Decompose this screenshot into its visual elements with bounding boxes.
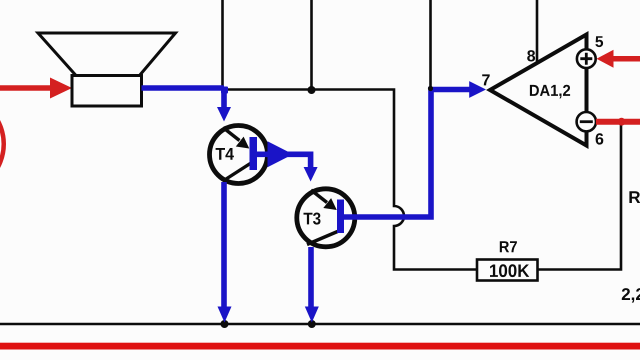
ground junction dot right xyxy=(308,320,316,328)
wire top stub to node B xyxy=(310,0,313,90)
red input arrow into speaker xyxy=(0,78,72,99)
T3 label xyxy=(304,213,321,225)
blue arrow down into T3 xyxy=(304,167,318,182)
wire speaker to node A (blue) xyxy=(142,85,225,91)
pin 5 label xyxy=(595,36,603,47)
pin 7 label xyxy=(482,74,490,85)
T4 emitter arrow (black diagonal) xyxy=(223,128,240,141)
op-amp DA1,2 triangle xyxy=(490,35,587,146)
wire feedback: node A to R7 with hop over blue wire xyxy=(224,90,477,270)
wire T4 bottom to ground (blue arrow) xyxy=(221,182,227,307)
R5 value 2,2 (cut off at edge) xyxy=(622,288,640,303)
resistor R7 box xyxy=(477,260,538,281)
red ring fragment at left edge xyxy=(0,95,4,193)
wire top stub to node A xyxy=(221,0,224,89)
R5 label (cut off at edge) xyxy=(629,191,640,203)
transistor T4 circle xyxy=(210,126,268,184)
op-amp label xyxy=(530,85,570,99)
red output wire from pin 6 xyxy=(596,119,640,125)
T3 base bar (blue) xyxy=(337,200,344,234)
speaker LS1 body xyxy=(72,76,142,107)
transistor T3 circle xyxy=(297,189,355,247)
T4 collector diagonal (black) xyxy=(223,163,251,181)
T3 collector diagonal (black) xyxy=(307,232,338,245)
pin 8 label xyxy=(527,50,535,61)
wire T3 bar to op-amp pin 7 (blue) xyxy=(344,90,470,218)
node B junction dot xyxy=(308,86,316,94)
wire pin 8 xyxy=(536,0,539,63)
R7 label xyxy=(500,241,517,252)
wire top stub to pin 7 corner xyxy=(429,0,432,88)
ground junction dot left xyxy=(221,320,229,328)
ground rail xyxy=(0,323,640,326)
T4 base bar (blue) xyxy=(250,137,258,170)
wire T4 bar to T3 (blue, big arrow) xyxy=(257,154,311,168)
R7 value 100K xyxy=(490,264,529,277)
inverting input circle (-) xyxy=(577,112,596,131)
T4 label xyxy=(216,148,234,160)
wire R7 to R5 xyxy=(538,124,622,270)
node A blue junction dot xyxy=(221,87,228,94)
pin 6 label xyxy=(596,133,604,144)
speaker LS1 horn xyxy=(38,33,176,76)
wire T3 bottom to ground (blue arrow) xyxy=(308,247,314,307)
power bar (red) xyxy=(0,343,640,350)
non-inverting input circle (+) xyxy=(577,49,596,68)
blue arrow into pin 7 xyxy=(469,81,486,98)
wire node A down to T4 (blue arrow) xyxy=(221,88,227,108)
red arrow into pin 5 xyxy=(597,50,640,68)
red junction dot on output xyxy=(618,118,626,126)
T3 emitter arrow (black diagonal) xyxy=(311,190,327,203)
junction dot at pin7 corner xyxy=(428,86,433,91)
